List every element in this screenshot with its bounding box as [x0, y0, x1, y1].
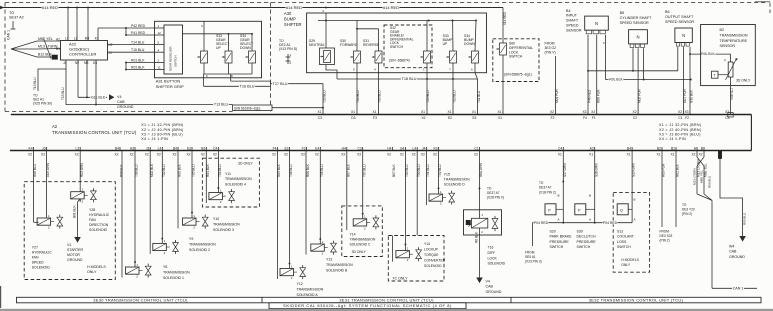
solenoid Y13 transmission solenoid B — [319, 151, 321, 245]
svg-text:GROUND: GROUND — [67, 258, 83, 262]
drops from bump shifter to TCU — [426, 73, 428, 79]
controller A22 — [61, 41, 108, 61]
svg-text:B4: B4 — [115, 146, 119, 150]
svg-text:V1: V1 — [498, 116, 502, 120]
svg-text:H MODELS: H MODELS — [87, 265, 106, 269]
svg-text:Y11: Y11 — [225, 172, 231, 176]
svg-text:(PIN V): (PIN V) — [545, 50, 556, 54]
svg-text:C2: C2 — [633, 116, 637, 120]
svg-text:CYLINDER SHAFT: CYLINDER SHAFT — [620, 16, 653, 20]
switch S32 gear enable in grip — [203, 21, 205, 51]
wire from S/N box to TCU — [272, 107, 323, 109]
svg-text:J1: J1 — [109, 51, 113, 55]
svg-text:M13 LTGRN: M13 LTGRN — [693, 168, 697, 185]
svg-text:X4 = J4 1-PIN: X4 = J4 1-PIN — [141, 137, 168, 141]
svg-text:E2: E2 — [448, 116, 452, 120]
svg-text:S60: S60 — [509, 42, 515, 46]
svg-text:V4: V4 — [486, 280, 490, 284]
svg-text:TRANSMISSION: TRANSMISSION — [213, 222, 240, 226]
svg-text:X1: X1 — [627, 153, 631, 157]
svg-text:M13 LTGRN: M13 LTGRN — [38, 45, 58, 49]
svg-text:SOLENOID: SOLENOID — [424, 264, 442, 268]
svg-text:X1: X1 — [351, 110, 355, 114]
svg-text:GROUND: GROUND — [117, 105, 134, 109]
svg-text:LOCKUP: LOCKUP — [424, 248, 439, 252]
svg-text:X1: X1 — [589, 153, 593, 157]
svg-text:SOLENOID: SOLENOID — [488, 262, 506, 266]
svg-text:CAB: CAB — [486, 285, 494, 289]
svg-text:COOLANT: COOLANT — [617, 235, 635, 239]
wire R0L BLK to B2 — [690, 53, 731, 55]
svg-text:B3: B3 — [201, 146, 205, 150]
shifter grip A31 box — [155, 21, 262, 78]
svg-text:X3: X3 — [725, 110, 729, 114]
pressure switch S20 park brake — [562, 151, 564, 223]
svg-text:R50 BLU: R50 BLU — [743, 213, 747, 225]
solenoid Y11 transmission solenoid 4 — [217, 151, 219, 193]
svg-text:L3: L3 — [76, 146, 80, 150]
svg-text:C1: C1 — [474, 146, 478, 150]
svg-text:A: A — [589, 218, 591, 222]
svg-text:TO: TO — [682, 203, 687, 207]
svg-text:SPEED: SPEED — [566, 24, 579, 28]
svg-text:B07 BLK: B07 BLK — [392, 164, 396, 177]
svg-text:ONLY: ONLY — [87, 270, 97, 274]
svg-text:C4: C4 — [558, 146, 562, 150]
svg-text:GROUND: GROUND — [486, 290, 502, 294]
svg-text:C3: C3 — [318, 116, 322, 120]
svg-text:A3: A3 — [130, 146, 134, 150]
grip internal wiring — [183, 33, 253, 35]
svg-text:FROM: FROM — [525, 251, 535, 255]
svg-text:A: A — [724, 58, 726, 62]
svg-text:CONVERTER: CONVERTER — [424, 259, 446, 263]
svg-text:SWITCH: SWITCH — [174, 56, 178, 67]
svg-text:SOLENOID: SOLENOID — [89, 228, 108, 232]
svg-text:B4: B4 — [627, 146, 631, 150]
svg-text:T16 BLU: T16 BLU — [240, 85, 255, 89]
svg-text:B6: B6 — [665, 10, 670, 14]
svg-text:H4: H4 — [387, 146, 391, 150]
svg-text:LOSS: LOSS — [617, 240, 627, 244]
svg-text:X2: X2 — [114, 153, 118, 157]
svg-text:CAB: CAB — [729, 250, 737, 254]
svg-text:SE37 A2: SE37 A2 — [9, 16, 24, 20]
svg-text:M04 PUR: M04 PUR — [555, 88, 559, 103]
page bottom gray strip — [0, 309, 773, 311]
dashed box 3D ONLY with Y11 — [202, 158, 259, 207]
svg-text:B4: B4 — [173, 146, 177, 150]
svg-text:R0L BLK: R0L BLK — [609, 78, 623, 82]
svg-text:L4: L4 — [413, 146, 417, 150]
svg-text:X2: X2 — [284, 153, 288, 157]
svg-text:M07 PUR: M07 PUR — [683, 88, 687, 103]
svg-text:3D ONLY: 3D ONLY — [736, 78, 751, 82]
cab ground V4 lower — [476, 278, 483, 284]
svg-text:Y15: Y15 — [444, 172, 450, 176]
svg-text:SHIFTER: SHIFTER — [284, 22, 302, 27]
svg-text:TRANSMISSION: TRANSMISSION — [720, 33, 748, 37]
svg-text:SPEED SENSOR: SPEED SENSOR — [620, 21, 649, 25]
svg-text:X2: X2 — [474, 153, 478, 157]
wire #14 RED power bus — [0, 7, 503, 9]
solenoid Y27 hydraulic fan speed — [46, 151, 48, 219]
solenoid Y9 transmission solenoid 2 — [161, 151, 163, 244]
svg-text:SWITCH: SWITCH — [550, 245, 564, 249]
svg-text:TRANSMISSION: TRANSMISSION — [297, 287, 324, 291]
CAN wires below TCU — [696, 151, 698, 158]
svg-text:X2: X2 — [157, 153, 161, 157]
svg-text:SPEED: SPEED — [32, 261, 44, 265]
svg-text:T03 BLU: T03 BLU — [378, 90, 382, 103]
svg-text:DE37 A7: DE37 A7 — [487, 191, 500, 195]
svg-text:#14 RED: #14 RED — [42, 5, 58, 10]
svg-text:B2: B2 — [657, 146, 661, 150]
svg-text:N: N — [636, 34, 639, 39]
svg-text:L1: L1 — [65, 36, 69, 40]
svg-text:SHAFT: SHAFT — [566, 19, 579, 23]
wire G11 BLK and cab ground V4 — [77, 60, 79, 97]
svg-text:W4: W4 — [729, 245, 734, 249]
svg-text:#14 RED: #14 RED — [503, 11, 507, 25]
svg-text:DE3 Y20: DE3 Y20 — [682, 207, 695, 211]
svg-text:3D ONLY: 3D ONLY — [352, 250, 367, 254]
svg-text:C1: C1 — [678, 116, 682, 120]
svg-text:X2: X2 — [341, 153, 345, 157]
cab harness dashed border — [5, 2, 766, 4]
svg-text:X2: X2 — [129, 153, 133, 157]
svg-text:X2: X2 — [433, 153, 437, 157]
svg-text:X2: X2 — [172, 153, 176, 157]
svg-text:DE37 A7: DE37 A7 — [539, 186, 552, 190]
svg-text:A2: A2 — [590, 146, 594, 150]
svg-text:(S/N -658874): (S/N -658874) — [389, 58, 410, 62]
svg-text:T05 BLU: T05 BLU — [426, 90, 430, 103]
svg-text:INPUT: INPUT — [566, 14, 578, 18]
svg-text:S30: S30 — [577, 230, 583, 234]
terminator on B12 BLK — [52, 55, 58, 59]
second grip exit wire — [230, 74, 232, 81]
svg-text:P41 RED: P41 RED — [131, 31, 146, 35]
svg-text:Q: Q — [620, 209, 623, 213]
diff lock solenoid Y16 — [479, 151, 481, 210]
svg-text:DOWN: DOWN — [240, 46, 251, 50]
svg-text:X1: X1 — [497, 110, 501, 114]
solenoid Y10 transmission solenoid 3 — [191, 151, 193, 219]
svg-text:P04 RED: P04 RED — [534, 221, 549, 225]
svg-text:M8E YEL: M8E YEL — [38, 37, 53, 41]
svg-text:OUTPUT SHAFT: OUTPUT SHAFT — [665, 15, 694, 19]
svg-text:SOLENOID D: SOLENOID D — [444, 183, 465, 187]
bump shifter box A30 — [307, 13, 487, 73]
svg-text:#14 RED: #14 RED — [286, 5, 302, 10]
starter motor ground V1 — [79, 199, 81, 202]
svg-text:|S/N 661906--&gt;|: |S/N 661906--&gt;| — [234, 106, 260, 110]
svg-text:C3: C3 — [357, 146, 361, 150]
svg-text:S12: S12 — [617, 230, 623, 234]
svg-text:DIFF: DIFF — [488, 251, 496, 255]
svg-text:(PIN 2): (PIN 2) — [660, 238, 670, 242]
svg-text:E4: E4 — [472, 116, 476, 120]
svg-text:ONLY: ONLY — [621, 263, 631, 267]
svg-text:PRESSURE: PRESSURE — [577, 240, 597, 244]
svg-text:N: N — [682, 33, 685, 38]
svg-text:TRANSMISSION: TRANSMISSION — [225, 177, 252, 181]
svg-text:STARTER: STARTER — [67, 248, 83, 252]
svg-text:REVERSE: REVERSE — [363, 43, 380, 47]
svg-text:TRANSMISSION: TRANSMISSION — [326, 263, 353, 267]
svg-text:3E3 G2: 3E3 G2 — [545, 46, 557, 50]
svg-text:A30: A30 — [284, 11, 292, 16]
gear resolver switch box — [164, 25, 183, 74]
svg-text:LOCK: LOCK — [509, 50, 519, 54]
svg-text:G/2D(BSC): G/2D(BSC) — [69, 46, 90, 51]
svg-text:N2: N2 — [75, 61, 79, 65]
svg-text:G4: G4 — [400, 146, 405, 150]
svg-text:Y9: Y9 — [189, 237, 193, 241]
solenoid Y14 lockup torque converter — [404, 151, 406, 251]
bottom reference bars 3E30/3E31/3E32 — [17, 297, 762, 303]
svg-text:SPEED SENSOR: SPEED SENSOR — [665, 20, 694, 24]
svg-text:X1: X1 — [670, 153, 674, 157]
svg-text:F3: F3 — [373, 116, 377, 120]
svg-text:H MODELS: H MODELS — [621, 258, 639, 262]
svg-text:FAN: FAN — [89, 218, 96, 222]
svg-text:X2: X2 — [301, 153, 305, 157]
svg-text:SENSOR: SENSOR — [566, 28, 582, 32]
svg-text:TRANSMISSION: TRANSMISSION — [444, 177, 470, 181]
svg-text:M3: M3 — [84, 61, 89, 65]
TCU box A2 outline — [11, 114, 752, 116]
svg-text:X1 = J1 32-PIN (BRN): X1 = J1 32-PIN (BRN) — [141, 123, 183, 127]
svg-text:B2: B2 — [720, 28, 725, 32]
temperature sensor B2 box — [701, 25, 756, 86]
svg-text:B: B — [634, 198, 636, 202]
svg-text:DECLUTCH: DECLUTCH — [577, 235, 597, 239]
svg-text:F1: F1 — [592, 116, 596, 120]
svg-text:GROUND: GROUND — [729, 255, 745, 259]
svg-text:M8E YEL: M8E YEL — [700, 170, 704, 183]
svg-text:A: A — [634, 218, 636, 222]
svg-text:T11 BLU: T11 BLU — [477, 90, 481, 103]
svg-text:SOLENOID 3: SOLENOID 3 — [213, 228, 234, 232]
svg-text:X1: X1 — [372, 110, 376, 114]
svg-text:TO: TO — [9, 11, 14, 15]
dashed box TC ONLY — [388, 236, 444, 282]
svg-text:BUMP: BUMP — [284, 16, 296, 21]
X4 single pin connector — [718, 151, 721, 159]
svg-text:TORQUE: TORQUE — [424, 253, 439, 257]
svg-text:B: B — [558, 194, 560, 198]
svg-text:X4 = J4 1-PIN: X4 = J4 1-PIN — [659, 137, 686, 141]
svg-text:(X25 PIN 30): (X25 PIN 30) — [33, 102, 52, 106]
svg-text:B: B — [589, 194, 591, 198]
svg-text:H4: H4 — [342, 146, 346, 150]
svg-text:F: F — [603, 41, 605, 45]
svg-text:12: 12 — [158, 31, 162, 35]
T box — [712, 71, 719, 78]
svg-text:CAN 1: CAN 1 — [733, 286, 744, 290]
svg-text:K3: K3 — [433, 146, 437, 150]
svg-text:P42 RED: P42 RED — [131, 24, 146, 28]
svg-text:X1: X1 — [447, 110, 451, 114]
svg-text:J4: J4 — [422, 146, 426, 150]
svg-text:R01 BLK: R01 BLK — [131, 66, 145, 70]
svg-text:PARK BRAKE: PARK BRAKE — [550, 235, 573, 239]
svg-text:F2: F2 — [551, 116, 555, 120]
svg-text:B5: B5 — [620, 11, 625, 15]
svg-text:X2: X2 — [591, 110, 595, 114]
svg-text:V4: V4 — [117, 95, 122, 99]
svg-text:Y10: Y10 — [213, 217, 219, 221]
svg-text:DE3 S23: DE3 S23 — [660, 234, 673, 238]
svg-text:A: A — [558, 218, 560, 222]
svg-text:L2: L2 — [74, 36, 78, 40]
svg-text:D3: D3 — [351, 116, 355, 120]
wire PIN RED — [532, 222, 632, 224]
svg-text:T15 BLU: T15 BLU — [131, 48, 145, 52]
svg-text:X2: X2 — [691, 153, 695, 157]
svg-text:TRANSMISSION: TRANSMISSION — [350, 238, 376, 242]
svg-text:X2: X2 — [400, 153, 404, 157]
solenoid Y15 transmission solenoid D — [438, 151, 440, 195]
svg-text:X1: X1 — [472, 110, 476, 114]
wire #14 RED drop to S60 — [502, 8, 504, 44]
svg-text:FROM: FROM — [660, 230, 670, 234]
svg-text:X2: X2 — [357, 153, 361, 157]
svg-text:X3: X3 — [684, 110, 688, 114]
svg-text:R0L BLK: R0L BLK — [701, 52, 715, 56]
svg-text:P46 RED: P46 RED — [588, 89, 592, 103]
svg-text:T20 BLU: T20 BLU — [323, 90, 327, 103]
svg-text:GEAR RESOLVER: GEAR RESOLVER — [169, 46, 173, 71]
svg-text:A2: A2 — [52, 124, 58, 129]
svg-text:SWITCH: SWITCH — [390, 45, 404, 49]
svg-text:Y8: Y8 — [163, 265, 167, 269]
svg-text:TRANSMISSION CONTROL UNIT (TCU: TRANSMISSION CONTROL UNIT (TCU) — [52, 130, 137, 135]
svg-text:SENSOR: SENSOR — [720, 44, 736, 48]
cab ground W4 — [720, 159, 743, 236]
svg-text:X2: X2 — [201, 153, 205, 157]
reference stubs right of S12 — [661, 151, 663, 228]
svg-text:SKIDDER CAL 630426--&gt; SYSTE: SKIDDER CAL 630426--&gt; SYSTEM FUNCTION… — [283, 303, 452, 308]
svg-text:L4: L4 — [158, 146, 162, 150]
svg-text:FROM: FROM — [545, 42, 555, 46]
svg-text:#14 RED: #14 RED — [383, 5, 399, 10]
svg-text:SHIFTER GRIP: SHIFTER GRIP — [156, 84, 184, 89]
svg-text:X1 = J1 32-PIN (BRN): X1 = J1 32-PIN (BRN) — [659, 123, 701, 127]
svg-text:F2: F2 — [685, 116, 689, 120]
dashed box Y14 solenoid C 3D ONLY — [342, 206, 383, 257]
svg-text:SOLENOID 4: SOLENOID 4 — [225, 182, 246, 186]
footer bar — [269, 303, 466, 309]
svg-text:11: 11 — [158, 66, 161, 70]
svg-text:DIFFERENTIAL: DIFFERENTIAL — [509, 46, 533, 50]
solenoid Y12 transmission solenoid A — [289, 151, 291, 269]
svg-text:3D ONLY: 3D ONLY — [238, 161, 253, 165]
dashed box S32 gear enable/diff lock (early S/N) — [384, 25, 432, 68]
svg-text:M05 PUR: M05 PUR — [638, 88, 642, 103]
pressure switch S30 declutch — [594, 151, 596, 223]
svg-text:R6 BLK: R6 BLK — [475, 231, 479, 243]
svg-text:X1: X1 — [558, 153, 562, 157]
svg-text:B1: B1 — [56, 47, 60, 51]
svg-text:(X23 PIN 3): (X23 PIN 3) — [525, 259, 542, 263]
svg-text:SOLENOID B: SOLENOID B — [326, 268, 348, 272]
svg-text:NEUTRAL: NEUTRAL — [309, 43, 325, 47]
svg-text:R06 BLK: R06 BLK — [306, 163, 310, 177]
svg-text:K1: K1 — [95, 36, 99, 40]
svg-text:T13 BLU: T13 BLU — [61, 87, 65, 100]
dashed box S60 differential lock switch — [493, 39, 539, 82]
svg-text:TEMPERATURE: TEMPERATURE — [720, 39, 748, 43]
svg-text:X2 = J2 40-PIN (BRN): X2 = J2 40-PIN (BRN) — [659, 128, 701, 132]
svg-text:X2: X2 — [633, 110, 637, 114]
svg-text:T04 BLU: T04 BLU — [356, 90, 360, 103]
svg-text:(X18 PIN C): (X18 PIN C) — [539, 190, 556, 194]
svg-text:3E30 TRANSMISSION CONTROL UNIT: 3E30 TRANSMISSION CONTROL UNIT (TCU) — [93, 298, 188, 303]
svg-text:X2: X2 — [678, 110, 682, 114]
svg-text:X2 = J2 40-PIN (BRN): X2 = J2 40-PIN (BRN) — [141, 128, 183, 132]
svg-text:X2: X2 — [421, 153, 425, 157]
svg-text:HYDRAULIC: HYDRAULIC — [32, 251, 53, 255]
svg-text:X3: X3 — [582, 110, 586, 114]
wire T17 BLU — [271, 83, 324, 85]
svg-text:Y12: Y12 — [297, 282, 303, 286]
thermistor — [730, 54, 732, 62]
left edge scan artifact — [0, 286, 2, 308]
svg-text:N: N — [595, 21, 598, 26]
svg-text:SWITCH: SWITCH — [509, 55, 523, 59]
svg-text:A2: A2 — [56, 37, 60, 41]
dashed box H MODELS ONLY — [24, 182, 115, 280]
svg-text:F4: F4 — [583, 116, 587, 120]
svg-text:X3 = J3 80-PIN (BLU): X3 = J3 80-PIN (BLU) — [659, 132, 701, 136]
solenoid Y14 transmission solenoid C — [362, 151, 364, 219]
wire CAN 1 — [711, 200, 713, 288]
dashed divider between shifter grip and bump shifter sections — [270, 3, 272, 112]
sensor shield wire R0L BLK — [605, 79, 690, 81]
svg-text:(X28 PIN X): (X28 PIN X) — [487, 196, 504, 200]
svg-text:Y28: Y28 — [89, 208, 95, 212]
svg-text:J3: J3 — [42, 146, 46, 150]
solenoid Y28 hydraulic fan direction — [79, 151, 81, 192]
svg-text:X2: X2 — [315, 153, 319, 157]
wire T16 BLU — [204, 85, 271, 87]
svg-text:HYDRAULIC: HYDRAULIC — [89, 213, 110, 217]
svg-text:T17 BLU: T17 BLU — [273, 82, 288, 86]
svg-text:T18 BLU: T18 BLU — [402, 77, 417, 81]
svg-text:R06 PUR: R06 PUR — [596, 89, 600, 103]
svg-text:SOLENOID: SOLENOID — [32, 266, 51, 270]
svg-text:DIRECTION: DIRECTION — [89, 223, 109, 227]
svg-text:E3: E3 — [187, 146, 191, 150]
svg-text:(PIN 2): (PIN 2) — [682, 212, 692, 216]
B2 output wire — [730, 77, 732, 115]
svg-text:Y13: Y13 — [326, 258, 332, 262]
svg-text:CAB: CAB — [117, 100, 125, 104]
svg-text:T16: T16 — [488, 246, 494, 250]
svg-text:T13 BLU: T13 BLU — [33, 77, 37, 90]
wire T13 BLU from controller to S/N box — [66, 60, 233, 105]
svg-text:SOLENOID 2: SOLENOID 2 — [189, 248, 210, 252]
svg-text:X2: X2 — [41, 153, 45, 157]
dashed box S12 coolant loss switch H MODELS ONLY — [613, 192, 649, 272]
svg-text:C3: C3 — [725, 116, 729, 120]
svg-text:Y27: Y27 — [32, 246, 38, 250]
svg-text:X2: X2 — [412, 153, 416, 157]
svg-text:X2: X2 — [28, 153, 32, 157]
